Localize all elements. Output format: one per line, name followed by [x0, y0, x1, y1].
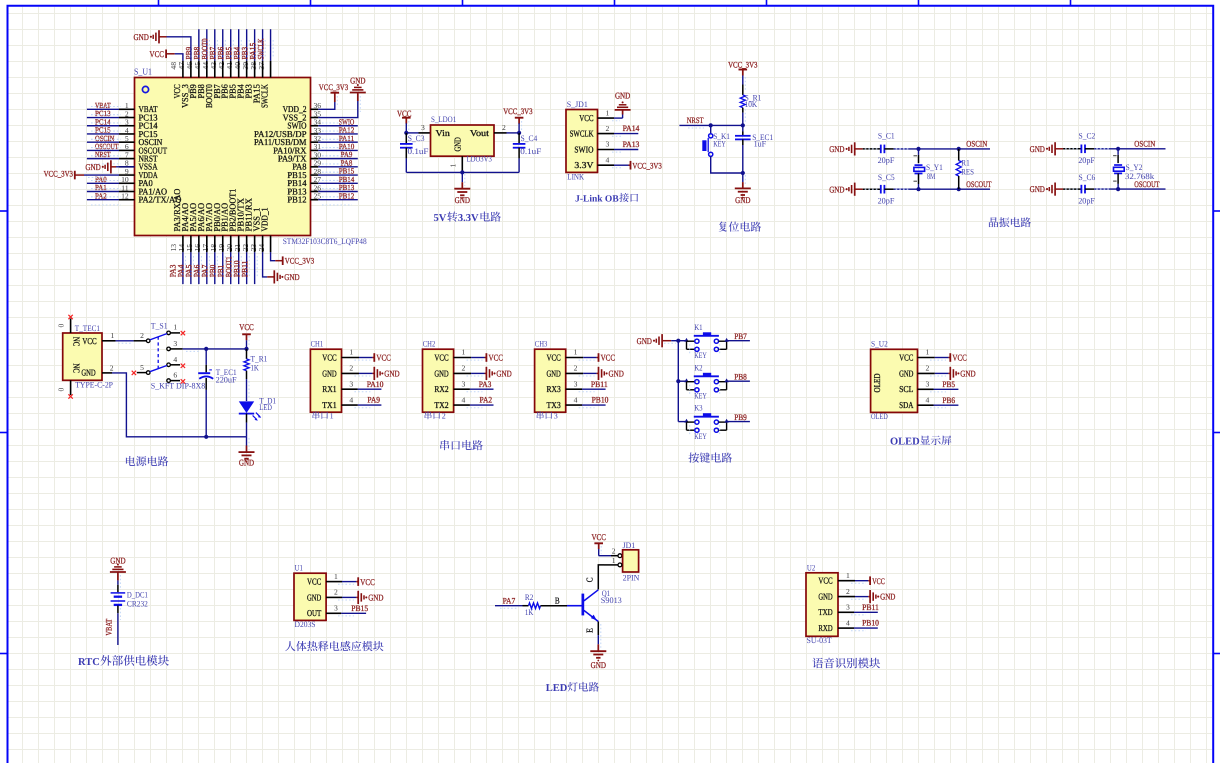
- svg-text:SWIO: SWIO: [574, 144, 594, 154]
- svg-text:2: 2: [502, 123, 506, 132]
- svg-text:2: 2: [140, 331, 144, 340]
- resistor R1 RES: [958, 149, 960, 161]
- ground symbol S_C5 bottom: [854, 183, 856, 196]
- wire D203S pin3 net PB15: [326, 612, 341, 614]
- ground symbol at SU-03T: [869, 590, 871, 603]
- svg-text:E: E: [584, 628, 594, 633]
- mcu bottom pin names: [172, 188, 270, 231]
- svg-text:PB10: PB10: [592, 396, 609, 405]
- svg-text:6: 6: [173, 371, 177, 380]
- svg-text:TX2: TX2: [434, 400, 448, 410]
- svg-text:PB12: PB12: [339, 191, 355, 200]
- connector CH2 body: [423, 349, 454, 412]
- no-connect mark bottom: [68, 394, 72, 398]
- svg-text:0: 0: [57, 387, 66, 391]
- junction key branch: [709, 123, 713, 127]
- svg-text:10K: 10K: [745, 100, 758, 109]
- svg-text:GND: GND: [591, 660, 606, 670]
- junction gnd node reset: [741, 171, 745, 175]
- pushbutton K2 KEY: [684, 363, 729, 400]
- wire OLED pin2 to GND: [918, 372, 935, 374]
- wire SU pin4 net PB10: [838, 627, 854, 629]
- wire R1 to LED: [246, 379, 248, 401]
- svg-text:KEY: KEY: [694, 351, 707, 360]
- svg-text:3: 3: [846, 603, 850, 612]
- svg-text:4: 4: [462, 395, 466, 404]
- mcu right pin stubs: [311, 109, 319, 199]
- svg-text:2: 2: [334, 588, 338, 597]
- svg-text:3: 3: [554, 411, 558, 420]
- junction node Vout: [517, 131, 521, 135]
- wire gnd to key bus: [662, 340, 671, 342]
- svg-text:VCC_3V3: VCC_3V3: [285, 257, 314, 266]
- svg-text:4: 4: [349, 395, 353, 404]
- wire node to LDO pin 3: [406, 132, 418, 134]
- TEC1 pin 2 wire gnd down: [102, 372, 112, 374]
- svg-text:PB5: PB5: [942, 380, 955, 389]
- capacitor S_C1 20pF: [880, 145, 882, 154]
- junction NRST node: [741, 123, 745, 127]
- svg-text:20pF: 20pF: [1078, 196, 1095, 205]
- svg-text:32.768k: 32.768k: [1125, 172, 1155, 181]
- svg-text:1: 1: [330, 411, 334, 420]
- wire net PA6 pin 16: [206, 252, 208, 284]
- wire CH1 pin4 net PA9: [342, 404, 358, 406]
- wire CH3 pin2 to GND: [566, 372, 584, 374]
- wire to base: [567, 605, 582, 607]
- svg-text:PB6: PB6: [942, 396, 955, 405]
- svg-text:S_LDO1: S_LDO1: [431, 115, 456, 124]
- module U2 SU-03T body: [806, 573, 838, 637]
- wire mcu pin 48 to VCC: [175, 54, 183, 61]
- wire net PC14 pin 3: [87, 125, 119, 127]
- svg-text:2: 2: [349, 364, 353, 373]
- switch pin 1 wire: [170, 332, 180, 334]
- wire K2 to bus: [678, 380, 686, 382]
- section title voice recognition module: [812, 658, 823, 668]
- svg-text:2: 2: [574, 364, 578, 373]
- svg-text:1: 1: [926, 348, 930, 357]
- ground symbol at CH3: [598, 367, 600, 380]
- svg-text:C: C: [584, 578, 594, 583]
- svg-text:0: 0: [57, 323, 66, 327]
- connector JD1 body 2PIN: [623, 550, 639, 572]
- svg-text:S_C6: S_C6: [1079, 173, 1096, 182]
- wire to ground reset: [742, 173, 744, 182]
- wire net PB1 pin 19: [230, 252, 232, 284]
- svg-text:GND: GND: [960, 369, 975, 379]
- wire JD1 pin1 to ground: [598, 117, 615, 119]
- svg-text:PA3: PA3: [479, 380, 492, 389]
- wire VSSA pin 8 to ground: [116, 166, 135, 168]
- wire net PB11 pin 22: [254, 252, 256, 284]
- svg-text:Vin: Vin: [436, 128, 451, 138]
- svg-text:3: 3: [173, 339, 177, 348]
- svg-text:GND: GND: [239, 457, 254, 467]
- wire VCC to Vin node: [405, 123, 407, 133]
- svg-text:S_U1: S_U1: [134, 67, 152, 77]
- switch arm 5-4: [150, 366, 167, 372]
- wire D203S pin1 to VCC: [326, 581, 342, 583]
- svg-text:R2: R2: [525, 593, 533, 602]
- switch arm 2-1: [150, 334, 167, 340]
- svg-text:2: 2: [926, 364, 930, 373]
- value label serial 1: [313, 411, 334, 420]
- mcu top pin names: [172, 84, 270, 108]
- transistor Q1 S9013: [584, 590, 598, 601]
- wire net PB6 pin 42: [230, 29, 232, 61]
- svg-text:S_C3: S_C3: [408, 134, 425, 143]
- svg-text:S_C5: S_C5: [878, 173, 895, 182]
- junction crystal top: [916, 147, 920, 151]
- ground symbol at mcu pin 8: [110, 160, 112, 173]
- svg-text:2: 2: [442, 411, 446, 420]
- svg-text:2: 2: [606, 124, 610, 133]
- svg-text:TX3: TX3: [547, 400, 562, 410]
- svg-text:PA2: PA2: [95, 191, 107, 200]
- svg-text:20pF: 20pF: [878, 197, 895, 206]
- svg-text:CH2: CH2: [423, 339, 436, 348]
- svg-text:R1: R1: [961, 159, 969, 168]
- svg-text:SCL: SCL: [899, 384, 913, 394]
- wire emitter to ground: [597, 622, 599, 636]
- ground symbol S_C1 top: [854, 142, 856, 155]
- wire CH1 pin1 to VCC: [342, 357, 360, 359]
- SU-03T pin names: [818, 576, 833, 633]
- mcu left pin numbers 1-12: [121, 101, 129, 200]
- switch link dashed: [157, 337, 159, 369]
- ground symbol at D203S: [357, 591, 359, 604]
- svg-text:GND: GND: [880, 592, 895, 602]
- section title J-Link OB: [575, 193, 638, 204]
- junction crystal bottom: [1116, 187, 1120, 191]
- TEC1 pin 1 wire to switch: [102, 340, 116, 342]
- CH2 pin numbers: [462, 348, 466, 405]
- OLED pin names: [899, 352, 914, 410]
- D203S pin names: [307, 577, 322, 619]
- ground symbol reset: [735, 187, 751, 189]
- CH3 pin names: [547, 352, 562, 410]
- JD1 pin names: [570, 113, 594, 170]
- ground symbol top-left of mcu: [158, 30, 160, 43]
- capacitor T_EC1 220uF: [205, 349, 207, 365]
- svg-text:2: 2: [612, 546, 616, 555]
- ground symbol S_C6 bottom: [1054, 183, 1056, 196]
- junction key bus K2: [676, 379, 680, 383]
- JD1 pin numbers 1-4: [606, 108, 610, 164]
- OLED pin numbers: [926, 348, 930, 405]
- svg-text:VCC: VCC: [322, 352, 336, 362]
- wire JD1 pin4 to VCC_3V3: [598, 164, 615, 166]
- wire Vout to node: [494, 132, 507, 134]
- wire net PA3 pin 13: [182, 252, 184, 284]
- wire gnd to battery: [117, 572, 119, 580]
- svg-text:VCC: VCC: [150, 49, 165, 59]
- junction vcc node: [244, 347, 248, 351]
- svg-text:3.3V: 3.3V: [574, 160, 594, 170]
- wire net PA12 pin 33: [318, 133, 358, 135]
- svg-text:S9013: S9013: [601, 596, 622, 605]
- wire C4 to gnd rail: [518, 158, 520, 172]
- svg-text:PB8: PB8: [734, 372, 747, 381]
- svg-text:OLED: OLED: [890, 436, 920, 447]
- wire CH1 pin3 net PA10: [342, 388, 358, 390]
- capacitor S_C6 20pF: [1080, 185, 1082, 194]
- svg-text:0.1uF: 0.1uF: [520, 147, 541, 156]
- svg-text:VCC: VCC: [591, 532, 606, 542]
- svg-text:1: 1: [846, 571, 850, 580]
- svg-text:1: 1: [111, 331, 115, 340]
- wire CH2 pin2 to GND: [454, 372, 472, 374]
- svg-text:CR232: CR232: [127, 600, 148, 609]
- mcu right pin names: [254, 104, 307, 204]
- section title human IR sensor module: [285, 641, 295, 651]
- svg-text:3: 3: [606, 140, 610, 149]
- wire net PA7 pin 17: [214, 252, 216, 284]
- wire net PA8 pin 29: [318, 166, 358, 168]
- svg-text:GND: GND: [368, 593, 383, 603]
- svg-text:1: 1: [334, 572, 338, 581]
- mcu pin-1 marker circle: [142, 86, 148, 92]
- svg-text:U2: U2: [807, 563, 815, 572]
- value label serial 3: [537, 411, 558, 420]
- svg-text:PB10: PB10: [862, 619, 879, 628]
- svg-text:VCC_3V3: VCC_3V3: [632, 161, 661, 170]
- TEC1 pin names: [71, 336, 96, 377]
- power port VCC at CH2: [485, 353, 487, 362]
- svg-text:1: 1: [449, 163, 458, 167]
- wire VDD_1 pin 24 to VCC_3V3: [271, 252, 276, 260]
- junction crystal top: [1116, 147, 1120, 151]
- wire JD1 pin3 net PA13: [598, 149, 615, 151]
- ground symbol at CH1: [373, 367, 375, 380]
- svg-text:VCC: VCC: [818, 576, 832, 586]
- wire LDO gnd pin to rail: [461, 156, 463, 172]
- ground symbol of LDO circuit: [454, 188, 470, 190]
- wire OLED pin4 net PB6: [918, 404, 934, 406]
- wire S_C2 to OSCIN: [1085, 148, 1094, 150]
- svg-text:STM32F103C8T6_LQFP48: STM32F103C8T6_LQFP48: [283, 237, 367, 246]
- svg-text:20pF: 20pF: [878, 156, 895, 165]
- svg-text:S_JD1: S_JD1: [567, 100, 588, 109]
- wire gnd to S_C2: [1055, 148, 1063, 150]
- switch pin 5 wire: [137, 372, 147, 374]
- svg-text:NC: NC: [71, 363, 81, 373]
- svg-text:OSCIN: OSCIN: [1134, 140, 1155, 149]
- svg-text:2PIN: 2PIN: [623, 574, 640, 583]
- wire OLED pin1 to VCC: [918, 357, 935, 359]
- junction R1 top: [957, 147, 961, 151]
- wire net PC13 pin 2: [87, 117, 119, 119]
- TEC1 top pin 0: [70, 319, 72, 334]
- power port VCC at D203S: [357, 577, 359, 586]
- svg-text:S_U2: S_U2: [871, 339, 888, 348]
- svg-text:KEY: KEY: [694, 392, 707, 401]
- wire gnd rail: [406, 171, 519, 173]
- wire net PC15 pin 4: [87, 133, 119, 135]
- svg-text:S_C1: S_C1: [878, 132, 895, 141]
- svg-text:VCC: VCC: [579, 113, 593, 123]
- SU-03T pin numbers: [846, 571, 850, 627]
- svg-text:OSCOUT: OSCOUT: [1134, 180, 1159, 189]
- svg-text:GND: GND: [134, 32, 149, 42]
- svg-text:VCC: VCC: [82, 336, 96, 346]
- svg-text:VCC: VCC: [434, 352, 448, 362]
- section title OLED display: [890, 435, 951, 447]
- svg-text:GND: GND: [384, 369, 399, 379]
- svg-text:RXD: RXD: [818, 623, 833, 633]
- ground symbol at OLED: [949, 367, 951, 380]
- svg-text:LED: LED: [546, 683, 568, 694]
- wire VSS_1 pin 23 to ground: [263, 252, 268, 277]
- svg-text:J-Link OB: J-Link OB: [575, 194, 619, 204]
- junction key bus top: [676, 339, 680, 343]
- svg-text:KEY: KEY: [713, 139, 726, 148]
- power port VCC at CH1: [373, 353, 375, 362]
- svg-text:JD1: JD1: [623, 541, 636, 550]
- svg-text:3: 3: [926, 380, 930, 389]
- mcu bottom pin stubs: [183, 236, 271, 253]
- led T_D1: [239, 401, 254, 413]
- svg-text:VCC: VCC: [899, 352, 913, 362]
- resistor T_R1 1K: [246, 349, 248, 359]
- wire battery net VBAT: [117, 606, 119, 614]
- svg-text:S_KFT DIP-8X8: S_KFT DIP-8X8: [151, 382, 206, 391]
- svg-text:B: B: [555, 596, 560, 606]
- no-connect mark switch pin 4: [181, 364, 185, 368]
- svg-text:T_S1: T_S1: [151, 322, 168, 331]
- svg-text:1: 1: [173, 323, 177, 332]
- wire net PB7 pin 43: [222, 29, 224, 61]
- svg-text:S_C2: S_C2: [1079, 132, 1096, 141]
- svg-text:GND: GND: [615, 91, 630, 101]
- svg-text:PB11: PB11: [862, 603, 879, 612]
- wire VCC to JD1 pin2: [598, 549, 600, 556]
- wire net NRST pin 7: [87, 158, 119, 160]
- wire net SWCLK pin 37: [270, 29, 272, 61]
- wire R1 to NRST node: [742, 108, 744, 113]
- wire LED to gnd rail: [246, 414, 248, 423]
- svg-text:PA10: PA10: [367, 380, 384, 389]
- connector CH1 body: [310, 349, 341, 412]
- connector S_JD1 body: [566, 110, 598, 173]
- wire net PB8 pin 45: [206, 29, 208, 61]
- capacitor S_C4: [518, 133, 520, 143]
- svg-text:KEY: KEY: [694, 432, 707, 441]
- svg-text:VCC: VCC: [952, 353, 967, 363]
- no-connect mark top: [68, 315, 72, 319]
- svg-text:RES: RES: [961, 168, 974, 177]
- wire net SWIO pin 34: [318, 125, 358, 127]
- mcu top pin stubs: [183, 61, 271, 78]
- junction T_EC1 top: [204, 347, 208, 351]
- ground symbol at CH2: [485, 367, 487, 380]
- svg-text:S_C4: S_C4: [521, 134, 539, 143]
- svg-text:1: 1: [574, 348, 578, 357]
- wire net VBAT pin 1: [87, 108, 119, 110]
- svg-text:5V: 5V: [434, 213, 447, 224]
- svg-text:TYPE-C-2P: TYPE-C-2P: [75, 381, 113, 390]
- ground symbol led circuit: [590, 650, 606, 652]
- ground symbol key circuit: [661, 334, 663, 347]
- wire K1 to bus: [678, 340, 686, 342]
- mcu right pin numbers 36-25: [314, 101, 322, 200]
- wire CH3 pin3 net PB11: [566, 388, 582, 390]
- pushbutton K1 KEY: [684, 323, 729, 360]
- power port VCC_3V3 at mcu pin 24: [282, 256, 284, 265]
- wire CH2 pin3 net PA3: [454, 388, 470, 390]
- section title RTC power module: [78, 655, 169, 668]
- svg-text:3: 3: [349, 379, 353, 388]
- ground symbol above JD1: [615, 109, 631, 111]
- wire net PA2 pin 12: [87, 199, 119, 201]
- pushbutton S_K1 KEY: [710, 125, 712, 133]
- wire S_C6 to OSCOUT: [1085, 188, 1094, 190]
- ground symbol power circuit: [239, 451, 255, 453]
- power port VCC at SU-03T: [869, 576, 871, 585]
- crystal S_Y2 32.768k: [1117, 149, 1119, 155]
- CH1 pin numbers: [349, 348, 353, 405]
- section title power circuit: [126, 456, 135, 466]
- crystal S_Y1 8M: [918, 149, 920, 155]
- mcu bottom pin numbers 13-24: [169, 244, 266, 252]
- wire net BOOT0 pin 44: [214, 29, 216, 61]
- wire S_C1 to OSCIN: [884, 148, 893, 150]
- wire net PA4 pin 14: [190, 252, 192, 284]
- key bus vertical wire: [677, 341, 679, 422]
- wire JD1 pin1 to collector: [604, 564, 618, 566]
- wire net PA11 pin 32: [318, 141, 358, 143]
- wire key to gnd rail: [711, 156, 743, 173]
- section title key circuit: [689, 453, 700, 463]
- wire mcu pin 47 to ground: [167, 37, 191, 61]
- svg-text:K3: K3: [694, 404, 702, 413]
- connector JD1 pin2 circle: [618, 554, 622, 558]
- svg-text:VCC: VCC: [239, 322, 254, 332]
- svg-text:GND: GND: [307, 592, 322, 602]
- no-connect mark switch pin 6: [181, 379, 185, 383]
- wire CH3 pin4 net PB10: [566, 404, 582, 406]
- wire net PB9 pin 46: [198, 29, 200, 61]
- svg-text:GND: GND: [350, 76, 365, 86]
- svg-text:LED: LED: [259, 403, 272, 412]
- wire CH2 pin1 to VCC: [454, 357, 472, 359]
- svg-text:GND: GND: [547, 368, 562, 378]
- svg-text:OUT: OUT: [307, 608, 322, 618]
- svg-text:8M: 8M: [927, 172, 936, 181]
- svg-text:GND: GND: [609, 369, 624, 379]
- svg-text:S_Y2: S_Y2: [1126, 163, 1143, 172]
- wire net BOOT1 pin 20: [238, 252, 240, 284]
- svg-text:GND: GND: [829, 144, 844, 154]
- svg-text:OLED: OLED: [871, 412, 888, 421]
- connector CH3 body: [535, 349, 566, 412]
- svg-text:4: 4: [574, 395, 578, 404]
- svg-text:GND: GND: [899, 368, 914, 378]
- wire gnd to S_C5: [855, 188, 863, 190]
- wire K2 net PB8: [727, 380, 750, 382]
- resistor R2 1K: [523, 605, 529, 607]
- wire CH1 pin2 to GND: [342, 372, 360, 374]
- wire net PB5 pin 41: [238, 29, 240, 61]
- wire D203S pin2 to GND: [326, 596, 342, 598]
- svg-text:GND: GND: [322, 368, 337, 378]
- wire net PA0 pin 10: [87, 182, 119, 184]
- svg-text:VBAT: VBAT: [105, 619, 114, 636]
- svg-text:1: 1: [606, 108, 610, 117]
- wire SU pin1 to VCC: [838, 580, 855, 582]
- power port VCC_3V3 at mcu pin 36: [331, 92, 340, 94]
